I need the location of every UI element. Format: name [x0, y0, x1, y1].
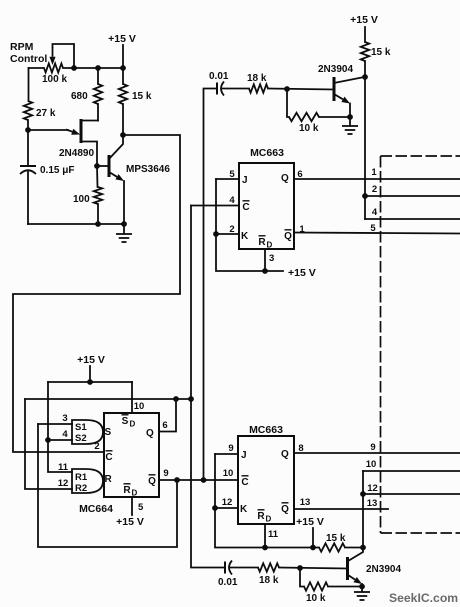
junction U3 pin11 — [262, 545, 268, 551]
wire top rail left of pot — [29, 67, 45, 69]
junction output line 12 tap — [360, 491, 366, 497]
svg-text:10 k: 10 k — [306, 593, 326, 604]
svg-text:MC663: MC663 — [250, 147, 284, 159]
svg-text:S: S — [122, 416, 129, 427]
junction +15V rail — [120, 65, 126, 71]
MPS3646 emitter wire — [123, 181, 125, 224]
+15 V lead — [122, 45, 124, 68]
transistor MPS3646 bar — [108, 155, 111, 177]
2N3904 bottom collector lead — [348, 548, 363, 562]
MPS3646 emitter arrow — [109, 172, 124, 181]
capacitor 0.01 one-shot 1 — [217, 82, 224, 96]
gate S inputs (MC664) — [72, 420, 103, 444]
svg-text:0.15 μF: 0.15 μF — [40, 165, 74, 176]
wire one-shot 1 output vertical — [364, 77, 366, 219]
svg-text:11: 11 — [58, 462, 69, 473]
U2 label Rbar — [123, 484, 131, 496]
wire MC664 +15V rail — [48, 381, 132, 383]
wire +15V MC664 lead — [89, 366, 91, 382]
svg-text:SeekIC.com: SeekIC.com — [389, 591, 458, 605]
junction emitter node one-shot 1 — [347, 114, 353, 120]
svg-text:2: 2 — [229, 224, 234, 235]
U2 pin 5 RD wire — [131, 497, 133, 515]
svg-text:R: R — [105, 474, 113, 485]
svg-text:MC664: MC664 — [79, 503, 113, 515]
svg-text:+15 V: +15 V — [350, 14, 378, 26]
svg-text:4: 4 — [62, 429, 68, 440]
gate R inputs (MC664) — [72, 469, 103, 493]
junction Qbar cap tap — [201, 477, 207, 483]
wire pot left down — [28, 68, 30, 101]
ground one-shot 2 — [354, 587, 370, 601]
wire 680 bottom lead — [97, 104, 99, 121]
wire output line 9 from U3 Q — [294, 452, 460, 454]
capacitor 0.01 one-shot 2 — [225, 561, 232, 575]
potentiometer wiper loop wire — [53, 44, 75, 68]
svg-text:12: 12 — [222, 497, 233, 508]
junction pot loop — [71, 65, 77, 71]
U3 pin label Qbar — [281, 503, 289, 515]
svg-text:9: 9 — [163, 468, 168, 479]
wire R2 from node B — [25, 399, 72, 489]
ground oscillator — [116, 224, 132, 242]
wire output line 2 — [365, 195, 460, 197]
wire cap to 18k — [223, 88, 250, 90]
svg-text:10 k: 10 k — [299, 123, 319, 134]
wire output line 12 — [363, 493, 460, 495]
svg-text:Q: Q — [148, 476, 156, 487]
capacitor 0.15 uF plates — [20, 166, 36, 174]
2N3904 bottom emitter arrow — [348, 575, 362, 584]
2N3904 top emitter wire — [349, 104, 351, 118]
wire cap2 to 18k — [231, 567, 259, 569]
U3 pin 11 RD wire — [264, 524, 266, 548]
wire emitter node to cap — [27, 130, 29, 166]
wire S1 feedback vertical and bottom — [38, 424, 177, 547]
svg-text:13: 13 — [300, 497, 311, 508]
svg-text:C: C — [105, 452, 112, 463]
U3 pin 9 J wire — [215, 453, 238, 455]
svg-text:K: K — [240, 504, 248, 515]
wire +15V to 15k — [364, 27, 366, 42]
svg-text:D: D — [266, 515, 272, 524]
svg-text:J: J — [242, 175, 248, 186]
svg-text:+15 V: +15 V — [288, 267, 316, 279]
2N4890 emitter arrow — [66, 129, 80, 135]
svg-text:R2: R2 — [75, 483, 87, 494]
U3 pin label Cbar — [241, 476, 248, 488]
U1 pin label Cbar — [242, 201, 249, 213]
svg-text:100 k: 100 k — [42, 74, 67, 85]
U1 pin 4 Cbar wire from node B — [191, 205, 239, 207]
junction node B at Q riser — [173, 396, 179, 402]
wire 15k bottom lead — [122, 104, 124, 135]
svg-text:2: 2 — [94, 441, 99, 452]
junction U3 K tie — [212, 505, 218, 511]
IC U2 MC664 box — [104, 413, 159, 497]
U1 pin 5 J wire — [216, 178, 239, 180]
junction MPS3646 base node — [94, 163, 100, 169]
svg-text:10: 10 — [366, 459, 377, 470]
wire 10k2 to emitter — [328, 586, 362, 588]
IC U3 MC663 box — [238, 436, 294, 524]
transistor 2N3904 top bar — [333, 77, 336, 101]
svg-text:Q: Q — [146, 428, 154, 439]
svg-text:4: 4 — [229, 195, 235, 206]
U1 J-K tie vertical to +15V — [216, 179, 283, 271]
junction Qbar feedback tap — [174, 477, 180, 483]
wire cap to bottom rail — [27, 172, 29, 224]
potentiometer wiper arrow — [49, 47, 55, 65]
2N3904 bottom emitter wire — [361, 584, 363, 587]
svg-text:13: 13 — [367, 498, 378, 509]
wire S2 input — [48, 439, 72, 441]
wire 10k to emitter — [319, 116, 350, 118]
wire S1 from Qbar feedback — [38, 423, 72, 425]
svg-text:C: C — [241, 477, 248, 488]
junction +15V MC664 rail — [87, 379, 93, 385]
wire oscillator bottom rail — [28, 223, 124, 225]
resistor 27 k — [24, 101, 32, 120]
U2 label Qbar — [148, 475, 156, 487]
svg-text:+15 V: +15 V — [108, 33, 136, 45]
svg-text:100: 100 — [73, 194, 90, 205]
wire S2-R1 tie vertical — [48, 382, 72, 472]
wire base to 10k — [287, 89, 289, 117]
transistor 2N4890 bar — [80, 119, 83, 143]
junction U1 pin3 +15V — [262, 268, 268, 274]
svg-text:R1: R1 — [75, 472, 88, 483]
junction MPS3646 collector node — [120, 132, 126, 138]
junction emitter node one-shot 2 — [359, 584, 365, 590]
U2 Qbar output wire to U3 Cbar — [159, 479, 238, 481]
wire output line 1 from U1 Q — [294, 178, 460, 180]
svg-text:Q: Q — [281, 449, 289, 460]
svg-text:1: 1 — [371, 167, 377, 178]
wire trigger vertical from MC664 Qbar to cap 0.01 — [204, 89, 218, 481]
svg-text:10: 10 — [134, 401, 145, 412]
2N4890 emitter wire — [28, 129, 68, 131]
wire 100 bottom lead — [97, 204, 99, 224]
svg-text:9: 9 — [370, 442, 375, 453]
junction S2 tie — [45, 437, 51, 443]
svg-text:S1: S1 — [75, 422, 87, 433]
svg-text:5: 5 — [138, 502, 144, 513]
wire clock from MPS3646 collector to MC664 C input — [13, 135, 180, 452]
wire base2 to 10k — [300, 568, 304, 587]
U2 Q output wire — [159, 399, 176, 432]
svg-text:+15 V: +15 V — [116, 516, 144, 528]
svg-text:0.01: 0.01 — [218, 577, 238, 588]
svg-text:12: 12 — [58, 478, 69, 489]
wire 18k to base — [268, 89, 334, 90]
svg-text:15 k: 15 k — [132, 91, 152, 102]
junction base node one-shot 1 — [284, 86, 290, 92]
wire 15k2 left lead — [313, 547, 319, 549]
svg-text:6: 6 — [162, 420, 167, 431]
2N4890 base1 lead — [81, 142, 97, 167]
wire 15k2 right lead — [345, 547, 363, 549]
wire one-shot 2 output vertical — [362, 471, 364, 548]
U1 pin label Qbar — [284, 230, 292, 242]
svg-text:+15 V: +15 V — [296, 516, 324, 528]
svg-text:D: D — [130, 420, 136, 429]
junction 100 bottom — [95, 221, 101, 227]
wire 15k to collector node — [364, 61, 366, 77]
potentiometer 100 k — [44, 64, 63, 73]
U3 pin label Rbar — [257, 510, 265, 522]
wire 100 top lead — [96, 166, 99, 187]
resistor 18 k one-shot 2 — [258, 563, 279, 571]
junction output line 2 tap — [362, 193, 368, 199]
resistor 680 — [94, 84, 102, 104]
resistor 15 k one-shot 2 — [319, 543, 345, 551]
junction U1 K tie — [213, 231, 219, 237]
svg-text:5: 5 — [370, 223, 376, 234]
2N4890 base2 lead — [81, 120, 98, 122]
U1 pin 3 RD wire — [264, 249, 266, 271]
wire output line 10 — [363, 470, 460, 472]
svg-text:0.01: 0.01 — [209, 71, 229, 82]
svg-text:18 k: 18 k — [247, 73, 267, 84]
wire 680 top lead — [97, 68, 99, 84]
junction base node one-shot 2 — [297, 565, 303, 571]
svg-text:3: 3 — [269, 253, 274, 264]
wire output line 13 from U3 Qbar — [294, 508, 388, 510]
svg-text:27 k: 27 k — [36, 108, 56, 119]
U3 pin 12 K wire — [215, 507, 238, 509]
svg-text:12: 12 — [367, 483, 378, 494]
U1 pin 2 K wire — [216, 233, 239, 235]
resistor 15 k oscillator — [119, 84, 127, 104]
svg-text:10: 10 — [223, 468, 234, 479]
svg-text:2: 2 — [372, 184, 377, 195]
2N3904 top emitter arrow — [334, 94, 350, 104]
svg-text:11: 11 — [268, 529, 279, 540]
svg-text:15 k: 15 k — [371, 47, 391, 58]
resistor 10 k one-shot 2 — [304, 582, 328, 590]
svg-text:15 k: 15 k — [326, 533, 346, 544]
resistor 100 — [94, 187, 102, 204]
junction ground node — [121, 221, 127, 227]
svg-text:K: K — [241, 231, 249, 242]
svg-text:Control: Control — [10, 53, 47, 65]
svg-text:2N3904: 2N3904 — [318, 64, 353, 75]
wire 18k2 to base — [279, 568, 347, 569]
junction +15V one-shot 2 — [310, 545, 316, 551]
wire top rail right of pot — [63, 67, 123, 69]
svg-text:S: S — [105, 427, 112, 438]
svg-text:18 k: 18 k — [259, 575, 279, 586]
resistor 15 k one-shot 1 — [361, 42, 369, 61]
svg-text:R: R — [258, 237, 266, 248]
resistor 18 k one-shot 1 — [249, 84, 268, 92]
wire 15k top lead — [122, 68, 124, 84]
svg-text:C: C — [242, 202, 249, 213]
transistor 2N3904 bottom bar — [346, 557, 349, 580]
wire output line 5 from U1 Qbar — [294, 233, 460, 234]
MPS3646 collector lead — [109, 135, 123, 159]
svg-text:J: J — [241, 450, 247, 461]
junction 680 top — [95, 65, 101, 71]
svg-text:5: 5 — [229, 169, 235, 180]
svg-text:D: D — [267, 241, 273, 250]
junction collector node one-shot 1 — [362, 74, 368, 80]
svg-text:Q: Q — [281, 173, 289, 184]
resistor 10 k one-shot 1 — [289, 113, 319, 121]
svg-text:Q: Q — [284, 231, 292, 242]
svg-text:Q: Q — [281, 504, 289, 515]
junction emitter node — [25, 127, 31, 133]
svg-text:9: 9 — [228, 443, 233, 454]
junction node B at cap riser — [188, 396, 194, 402]
U1 pin label Rbar — [258, 236, 266, 248]
svg-text:2N4890: 2N4890 — [59, 148, 94, 159]
svg-text:+15 V: +15 V — [77, 354, 105, 366]
svg-text:MC663: MC663 — [249, 424, 283, 436]
wire node B vertical — [191, 206, 224, 568]
wire +15V one-shot 2 lead — [312, 528, 314, 548]
MPS3646 base wire — [97, 165, 109, 167]
wire output line 4 — [365, 218, 460, 220]
wire pin 10 SD — [131, 382, 133, 413]
ground one-shot 1 — [342, 117, 358, 134]
U2 label SD bar — [122, 415, 129, 427]
svg-text:2N3904: 2N3904 — [366, 564, 401, 575]
wire 27k to emitter node — [27, 120, 29, 130]
junction collector node one-shot 2 — [360, 545, 366, 551]
svg-text:MPS3646: MPS3646 — [126, 164, 170, 175]
svg-text:RPM: RPM — [10, 41, 34, 53]
svg-text:680: 680 — [71, 91, 88, 102]
svg-text:R: R — [123, 485, 131, 496]
2N3904 top collector lead — [334, 77, 364, 83]
U3 J-K tie vertical — [215, 454, 313, 548]
op-amp... IC U1 MC663 box — [239, 163, 294, 249]
wire node B rail — [25, 398, 191, 400]
svg-text:3: 3 — [62, 413, 67, 424]
svg-text:R: R — [257, 511, 265, 522]
U2 label Cbar — [105, 451, 112, 463]
svg-text:4: 4 — [372, 207, 378, 218]
svg-text:S2: S2 — [75, 433, 87, 444]
dashed connector box — [381, 156, 460, 533]
